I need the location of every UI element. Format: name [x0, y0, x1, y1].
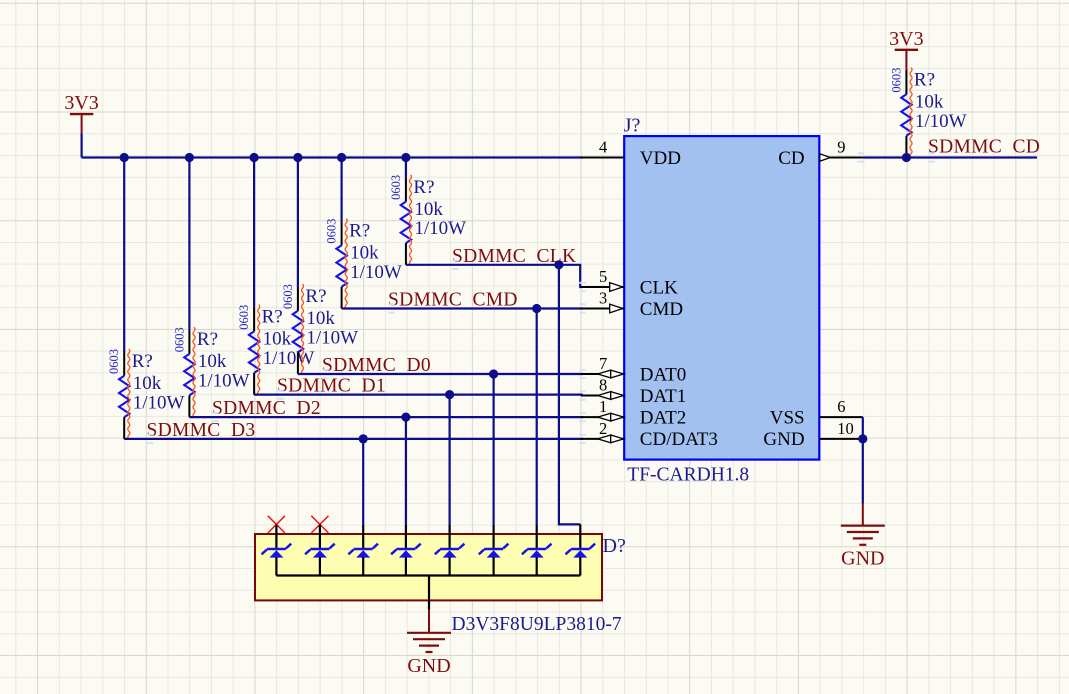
wire bus drop to SDMMC_CMD resistor: [341, 158, 343, 222]
svg-text:D?: D?: [603, 535, 626, 557]
resistor R? (SDMMC_D1 pull-up) 10k 1/10W 0603: [237, 305, 314, 395]
svg-text:DAT2: DAT2: [640, 407, 686, 428]
power port GND (bottom): [407, 610, 451, 677]
svg-text:R?: R?: [349, 221, 370, 242]
wire SDMMC_D3 net: [124, 438, 583, 440]
wire SDMMC_D1 net: [254, 394, 583, 396]
svg-text:DAT1: DAT1: [640, 386, 686, 407]
svg-text:10k: 10k: [306, 308, 335, 329]
junction node SDMMC_D2 / diode branch: [401, 413, 410, 422]
pin 7 DAT0: [581, 354, 687, 385]
svg-text:3: 3: [599, 289, 607, 308]
svg-text:CD: CD: [778, 148, 804, 169]
svg-text:1/10W: 1/10W: [414, 218, 466, 239]
junction node bus / SDMMC_D3 resistor: [120, 153, 129, 162]
svg-text:10k: 10k: [263, 329, 292, 350]
pin 2 CD/DAT3: [581, 419, 718, 450]
junction node bus / SDMMC_CMD resistor: [337, 153, 346, 162]
junction node bus / SDMMC_CLK resistor: [401, 153, 410, 162]
svg-text:0603: 0603: [889, 68, 903, 93]
power port 3V3 (left): [64, 92, 98, 135]
wire SDMMC_CLK net (with bend to pin 5): [406, 265, 583, 287]
svg-text:CD/DAT3: CD/DAT3: [640, 429, 718, 450]
svg-text:0603: 0603: [237, 305, 251, 330]
svg-text:D3V3F8U9LP3810-7: D3V3F8U9LP3810-7: [452, 614, 622, 635]
wire bus drop to SDMMC_CLK resistor: [405, 158, 407, 178]
svg-text:R?: R?: [262, 307, 283, 328]
svg-text:SDMMC D0: SDMMC D0: [322, 355, 431, 376]
svg-text:CMD: CMD: [640, 299, 683, 320]
TVS diode 1 of D?: [262, 524, 292, 575]
wire SDMMC_D1 down to diode array: [449, 395, 451, 525]
compile marks (pin/wire junction ticks): [147, 152, 935, 444]
svg-text:R?: R?: [305, 286, 326, 307]
resistor R? (SDMMC_D0 pull-up) 10k 1/10W 0603: [281, 284, 358, 374]
TVS diode 7 of D?: [522, 524, 552, 575]
pin 9 CD: [778, 138, 863, 169]
junction node SDMMC_CD / resistor: [902, 153, 911, 162]
wire bus drop to SDMMC_D0 resistor: [297, 158, 299, 287]
svg-text:GND: GND: [763, 429, 804, 450]
svg-text:SDMMC D2: SDMMC D2: [212, 398, 321, 419]
svg-text:R?: R?: [413, 177, 434, 198]
wire SDMMC_D0 net: [298, 373, 583, 375]
TVS diode 5 of D?: [435, 524, 465, 575]
svg-text:10k: 10k: [414, 199, 443, 220]
svg-text:7: 7: [599, 354, 607, 373]
svg-text:10k: 10k: [133, 373, 162, 394]
wire SDMMC_D3 down to diode array: [362, 439, 364, 525]
TVS diode 6 of D?: [479, 524, 509, 575]
svg-text:10k: 10k: [350, 243, 379, 264]
svg-text:VDD: VDD: [640, 148, 681, 169]
svg-text:SDMMC CMD: SDMMC CMD: [388, 290, 518, 311]
svg-text:6: 6: [837, 397, 845, 416]
wire SDMMC_CLK down to diode array (bend): [559, 265, 580, 525]
diode common anode rail: [276, 574, 580, 576]
pin 4 VDD: [581, 138, 681, 169]
no-ERC marker pin 2: [311, 516, 328, 533]
pin 6 VSS: [770, 397, 863, 428]
svg-text:R?: R?: [914, 70, 935, 91]
svg-text:10k: 10k: [915, 92, 944, 113]
svg-text:0603: 0603: [389, 175, 403, 200]
svg-text:1/10W: 1/10W: [133, 392, 185, 413]
svg-text:0603: 0603: [172, 327, 186, 352]
svg-text:10k: 10k: [198, 351, 227, 372]
junction node SDMMC_D1 / diode branch: [445, 390, 454, 399]
resistor R? (SDMMC_CMD pull-up) 10k 1/10W 0603: [325, 219, 402, 309]
svg-text:0603: 0603: [325, 219, 339, 244]
svg-text:R?: R?: [197, 329, 218, 350]
svg-text:3V3: 3V3: [889, 28, 923, 50]
resistor R? (SDMMC_D2 pull-up) 10k 1/10W 0603: [172, 327, 249, 417]
junction node SDMMC_CMD / diode branch: [532, 304, 541, 313]
junction node bus / SDMMC_D0 resistor: [293, 153, 302, 162]
svg-text:SDMMC D1: SDMMC D1: [277, 376, 386, 397]
TVS diode 2 of D?: [305, 524, 335, 575]
wire SDMMC_D2 down to diode array: [405, 417, 407, 524]
pin 1 DAT2: [581, 397, 687, 428]
junction node bus / SDMMC_D2 resistor: [185, 153, 194, 162]
svg-text:5: 5: [599, 267, 607, 286]
power port 3V3 (right): [889, 28, 923, 70]
junction node SDMMC_CLK / diode branch: [554, 260, 563, 269]
wire bus drop to SDMMC_D1 resistor: [253, 158, 255, 308]
svg-text:1/10W: 1/10W: [915, 111, 967, 132]
svg-text:SDMMC CD: SDMMC CD: [928, 137, 1040, 158]
svg-text:8: 8: [599, 376, 607, 395]
junction node SDMMC_D3 / diode branch: [359, 434, 368, 443]
svg-text:1/10W: 1/10W: [306, 327, 358, 348]
svg-text:VSS: VSS: [770, 407, 805, 428]
svg-text:GND: GND: [841, 548, 884, 570]
svg-text:1/10W: 1/10W: [350, 262, 402, 283]
svg-text:GND: GND: [407, 655, 450, 677]
diode array D? D3V3F8U9LP3810-7 body: [255, 534, 602, 600]
svg-text:DAT0: DAT0: [640, 364, 686, 385]
TVS diode 4 of D?: [391, 524, 421, 575]
junction node SDMMC_D0 / diode branch: [489, 369, 498, 378]
power port GND (right): [841, 504, 885, 570]
pin 3 CMD: [581, 289, 683, 320]
junction node GND pin 10: [858, 434, 867, 443]
wire rail to GND stem: [428, 576, 430, 610]
pin 10 GND: [763, 419, 862, 450]
wire bus drop to SDMMC_D3 resistor: [123, 158, 125, 352]
svg-text:TF-CARDH1.8: TF-CARDH1.8: [627, 465, 749, 486]
wire 3V3 stem to VDD bus: [80, 134, 82, 158]
junction node bus / SDMMC_D1 resistor: [250, 153, 259, 162]
svg-text:1/10W: 1/10W: [198, 371, 250, 392]
wire SDMMC_CMD down to diode array: [536, 309, 538, 525]
resistor R? (SDMMC_CD pull-up) 10k 1/10W 0603: [889, 68, 966, 158]
wire bus drop to SDMMC_D2 resistor: [188, 158, 190, 330]
svg-text:2: 2: [599, 419, 607, 438]
svg-text:9: 9: [837, 138, 845, 157]
svg-text:1/10W: 1/10W: [263, 348, 315, 369]
svg-text:SDMMC D3: SDMMC D3: [147, 420, 256, 441]
svg-text:J?: J?: [624, 114, 641, 136]
wire SDMMC_CD net: [863, 156, 1037, 158]
resistor R? (SDMMC_D3 pull-up) 10k 1/10W 0603: [107, 349, 184, 439]
svg-text:3V3: 3V3: [64, 92, 98, 114]
svg-text:R?: R?: [132, 351, 153, 372]
wire GND pin down: [862, 439, 864, 504]
wire VDD bus: [82, 156, 583, 158]
pin 5 CLK: [581, 267, 678, 298]
no-ERC marker pin 1: [268, 516, 285, 533]
svg-text:0603: 0603: [107, 349, 121, 374]
svg-text:CLK: CLK: [640, 277, 678, 298]
wire SDMMC_D0 down to diode array: [493, 374, 495, 524]
wire SDMMC_CMD net: [342, 307, 583, 309]
svg-text:4: 4: [599, 138, 607, 157]
svg-text:1: 1: [599, 397, 607, 416]
svg-text:10: 10: [837, 419, 854, 438]
svg-text:0603: 0603: [281, 284, 295, 309]
pin 8 DAT1: [581, 376, 687, 407]
connector J? TF-CARDH1.8 body: [624, 136, 819, 460]
resistor R? (SDMMC_CLK pull-up) 10k 1/10W 0603: [389, 175, 466, 265]
TVS diode 3 of D?: [348, 524, 378, 575]
wire SDMMC_D2 net: [189, 416, 582, 418]
TVS diode 8 of D?: [566, 524, 596, 575]
wire VSS to GND join: [862, 417, 864, 439]
